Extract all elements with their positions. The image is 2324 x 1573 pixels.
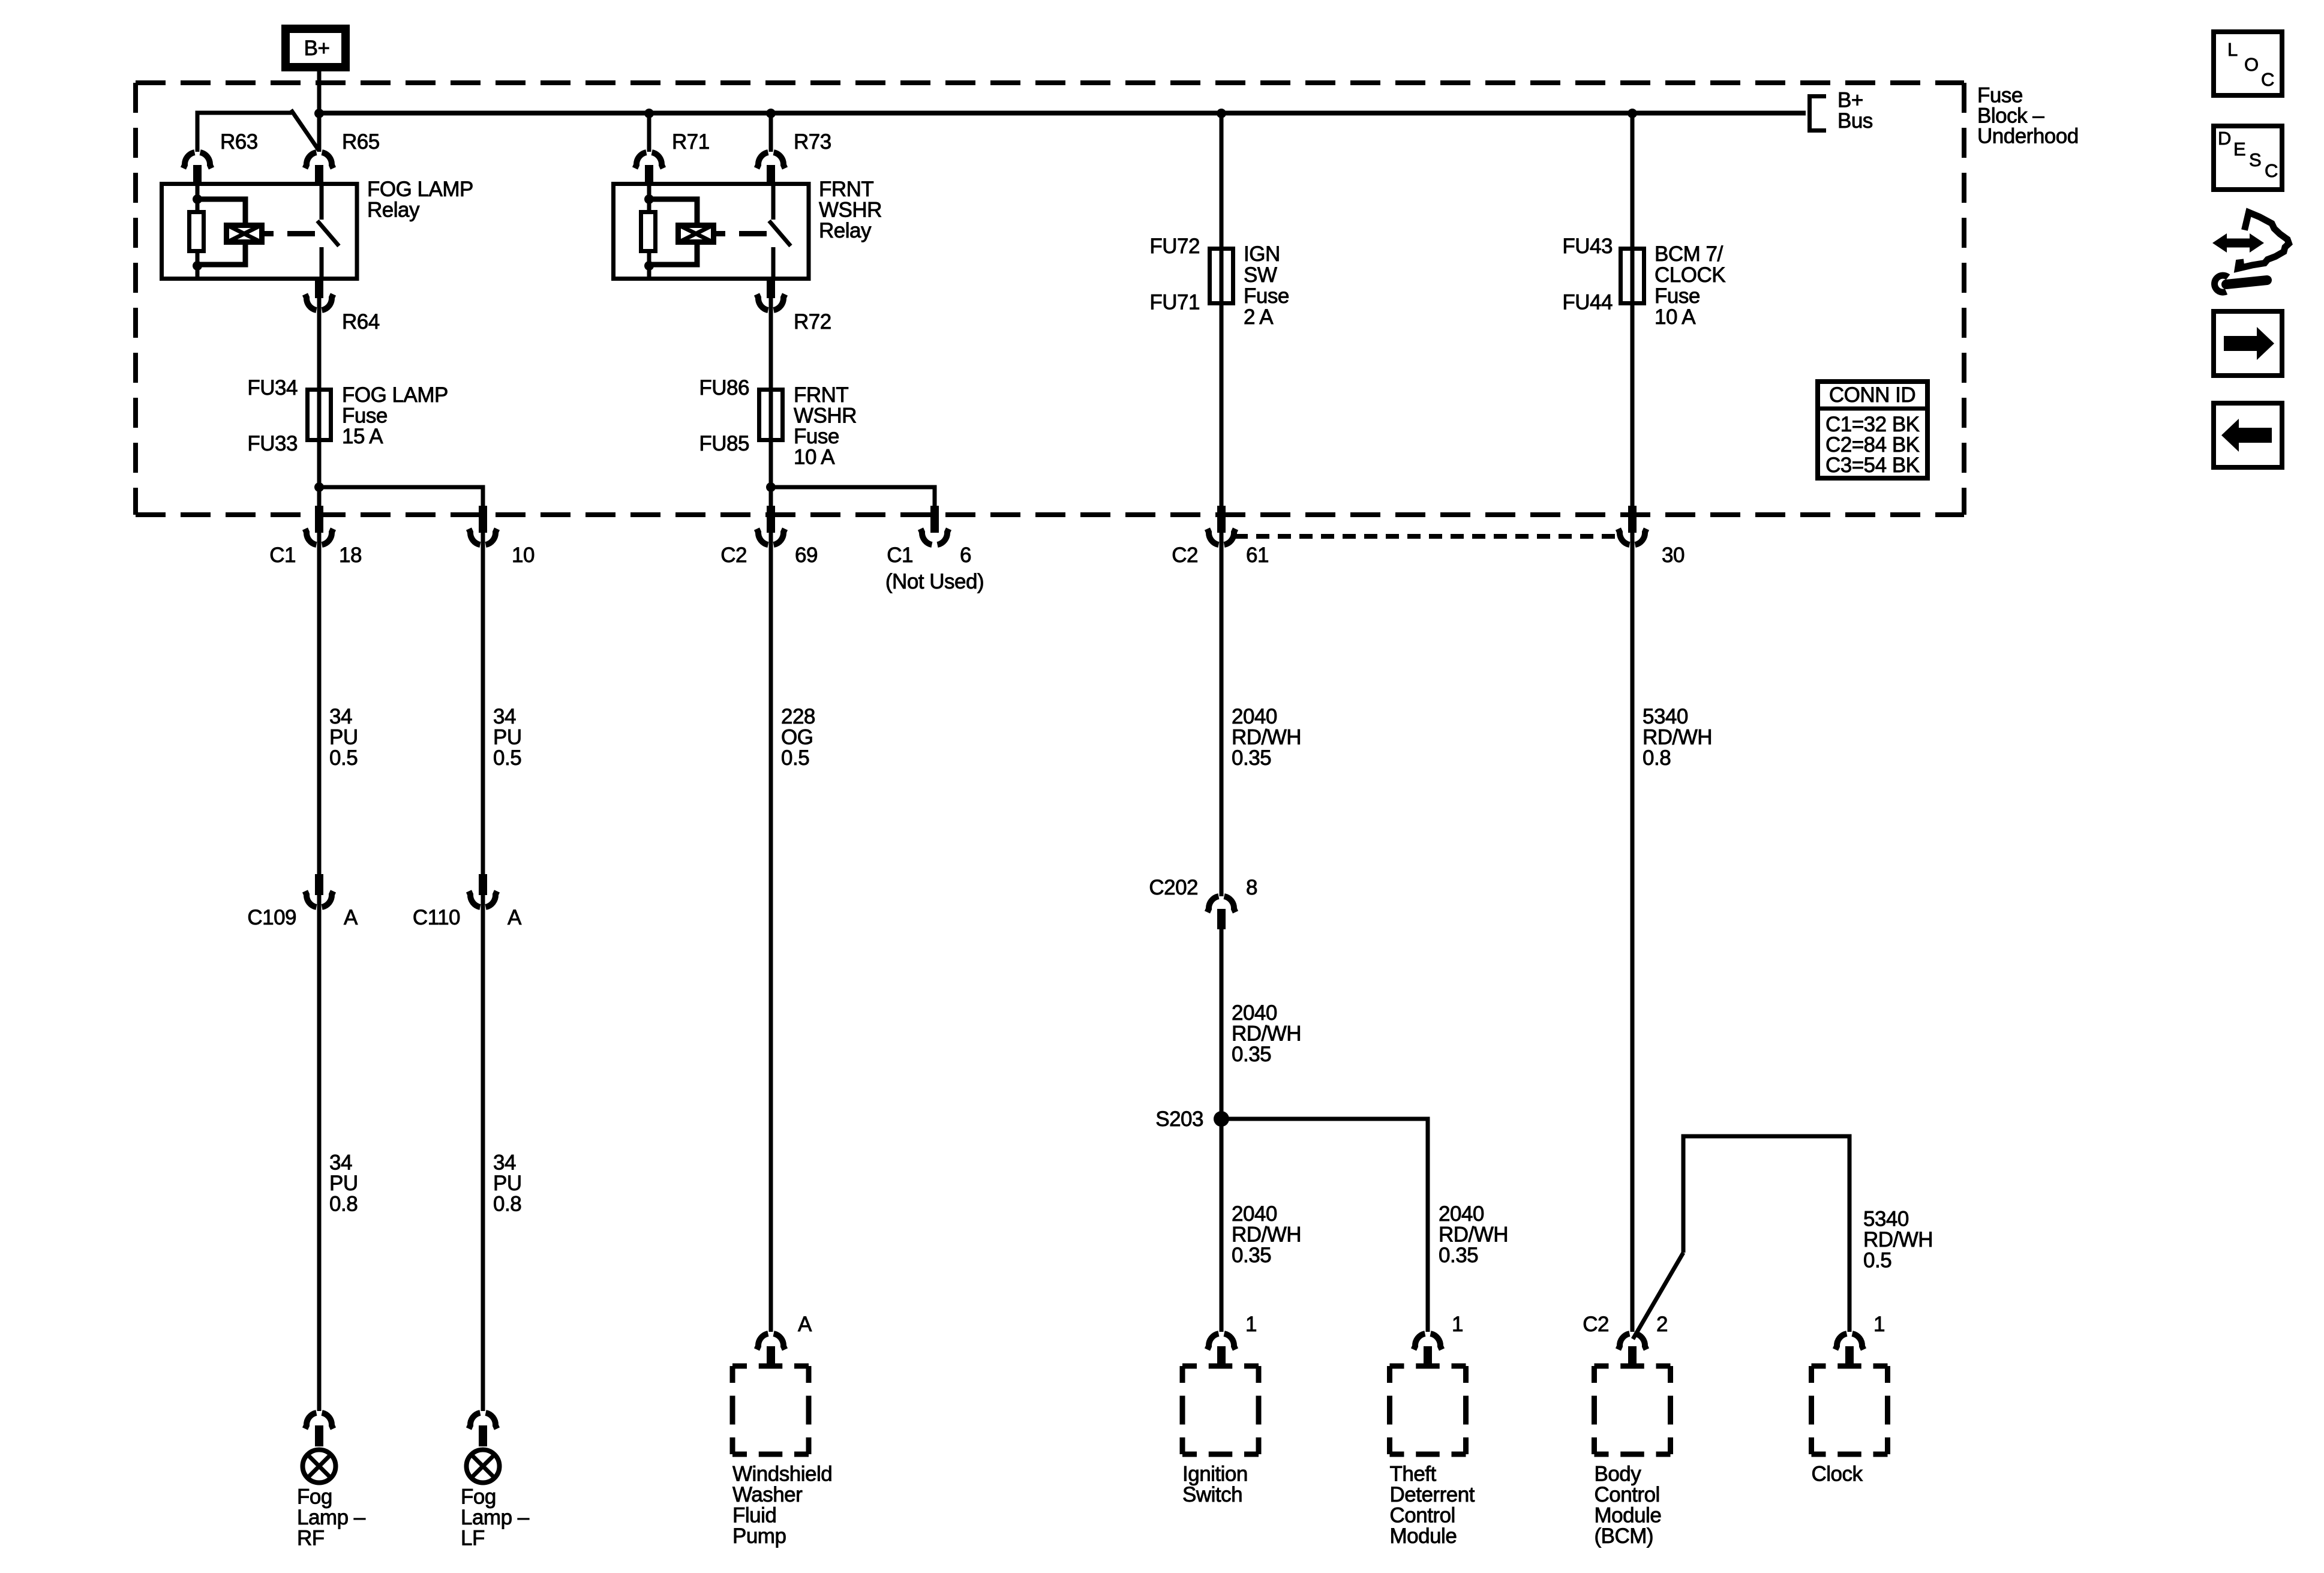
connector C2 pin 69 — [720, 506, 818, 567]
wire 61 to C202 — [1220, 533, 1224, 896]
svg-text:Fog: Fog — [297, 1485, 332, 1509]
svg-text:1: 1 — [1245, 1313, 1257, 1336]
wire R73 drop — [769, 113, 773, 152]
connector ignition switch pin 1 — [1208, 1313, 1257, 1367]
wire S203 branch to theft module — [1221, 1119, 1428, 1332]
svg-text:Underhood: Underhood — [1977, 125, 2079, 148]
svg-text:FU71: FU71 — [1149, 291, 1200, 314]
label wire 34 PU 0.8 LF — [493, 1151, 522, 1216]
relay U1 FOG LAMP Relay box — [162, 184, 358, 279]
svg-text:Module: Module — [1390, 1524, 1457, 1548]
svg-text:C3=54 BK: C3=54 BK — [1825, 454, 1920, 477]
svg-text:CONN ID: CONN ID — [1829, 383, 1915, 407]
svg-text:FU43: FU43 — [1562, 235, 1613, 258]
svg-text:0.35: 0.35 — [1232, 1244, 1271, 1267]
svg-text:PU: PU — [493, 1172, 522, 1195]
svg-text:0.35: 0.35 — [1439, 1244, 1478, 1267]
B+ power symbol — [286, 29, 346, 67]
svg-text:5340: 5340 — [1643, 705, 1688, 728]
svg-text:S203: S203 — [1155, 1107, 1203, 1131]
icon DESC box — [2214, 126, 2282, 190]
connector fog lamp LF — [469, 1413, 497, 1446]
svg-text:R64: R64 — [342, 310, 380, 334]
svg-text:2: 2 — [1656, 1313, 1668, 1336]
svg-text:RD/WH: RD/WH — [1643, 726, 1712, 749]
svg-text:RD/WH: RD/WH — [1232, 1223, 1301, 1247]
box Clock — [1812, 1366, 1888, 1486]
svg-text:RD/WH: RD/WH — [1232, 726, 1301, 749]
icon vehicle double arrow — [2212, 233, 2264, 253]
connector BCM C2 pin 2 — [1583, 1313, 1668, 1367]
label wire 228 OG 0.5 — [781, 705, 815, 770]
connector C2 pin 61 — [1172, 506, 1269, 567]
wire 18 to C109 — [317, 533, 322, 875]
svg-text:Body: Body — [1595, 1463, 1642, 1486]
svg-text:(BCM): (BCM) — [1595, 1524, 1654, 1548]
svg-text:Pump: Pump — [732, 1524, 786, 1548]
lamp Fog Lamp RF — [297, 1450, 366, 1550]
connector pin R65 — [305, 130, 380, 186]
svg-text:Clock: Clock — [1812, 1463, 1863, 1486]
splice S203 — [1155, 1107, 1229, 1131]
svg-text:SW: SW — [1244, 263, 1277, 287]
B+ Bus terminal bracket — [1810, 89, 1873, 133]
svg-text:10: 10 — [512, 544, 535, 567]
wire 10 to C110 — [481, 533, 485, 875]
svg-text:FU44: FU44 — [1562, 291, 1613, 314]
wire R65 drop — [317, 113, 322, 152]
svg-text:RD/WH: RD/WH — [1232, 1022, 1301, 1046]
box Windshield Washer Fluid Pump — [732, 1366, 832, 1548]
node bus/R73 junction — [766, 109, 776, 118]
node bus/BCM junction — [1628, 109, 1637, 118]
node washer fuse branch — [766, 482, 776, 492]
svg-text:C1: C1 — [269, 544, 296, 567]
svg-text:5340: 5340 — [1863, 1208, 1909, 1231]
wire C110 to fog lamp LF — [481, 895, 485, 1411]
svg-text:0.8: 0.8 — [493, 1193, 521, 1216]
node fog fuse branch — [314, 482, 324, 492]
svg-text:0.5: 0.5 — [329, 746, 358, 770]
svg-text:C2: C2 — [1172, 544, 1198, 567]
relay U1 internals — [190, 182, 340, 278]
svg-text:FOG LAMP: FOG LAMP — [342, 383, 448, 407]
svg-text:8: 8 — [1246, 876, 1257, 899]
svg-text:FU85: FU85 — [699, 432, 749, 455]
svg-text:0.8: 0.8 — [1643, 746, 1671, 770]
connector pin R63 — [184, 130, 258, 186]
svg-text:A: A — [798, 1313, 812, 1336]
svg-text:C: C — [2265, 160, 2278, 181]
svg-text:Windshield: Windshield — [732, 1463, 832, 1486]
box Body Control Module — [1595, 1366, 1671, 1548]
label wire 2040 RD/WH 0.35 upper — [1232, 705, 1301, 770]
svg-text:PU: PU — [329, 1172, 358, 1195]
svg-text:0.35: 0.35 — [1232, 746, 1271, 770]
connector C202 pin 8 — [1149, 876, 1257, 929]
label wire 2040 RD/WH 0.35 theft — [1439, 1202, 1508, 1267]
connector pin 10 — [469, 506, 535, 567]
svg-text:C202: C202 — [1149, 876, 1198, 899]
fuse FU72/FU71 IGN SW Fuse 2A — [1149, 235, 1289, 329]
label FRNT WSHR Relay — [819, 178, 882, 242]
icon vehicle outline — [2238, 212, 2289, 269]
svg-text:RF: RF — [297, 1527, 325, 1550]
svg-text:Control: Control — [1595, 1483, 1660, 1506]
svg-text:Washer: Washer — [732, 1483, 803, 1506]
icon wrench — [2215, 275, 2267, 292]
svg-text:Switch: Switch — [1182, 1483, 1242, 1506]
wire C109 to fog lamp RF — [317, 895, 322, 1411]
svg-text:Theft: Theft — [1390, 1463, 1437, 1486]
label wire 2040 RD/WH 0.35 mid — [1232, 1001, 1301, 1066]
svg-text:Relay: Relay — [819, 219, 872, 242]
wire C202 to S203 — [1220, 929, 1224, 1119]
wire branch to R63 — [197, 113, 292, 151]
svg-text:2 A: 2 A — [1244, 305, 1274, 329]
svg-text:FU86: FU86 — [699, 376, 749, 400]
svg-text:61: 61 — [1246, 544, 1269, 567]
svg-text:FU34: FU34 — [247, 376, 298, 400]
wire B+ bus — [319, 111, 1806, 116]
fuse block underhood dashed boundary — [136, 83, 1964, 515]
icon arrow right box — [2214, 311, 2282, 376]
svg-text:FRNT: FRNT — [819, 178, 873, 201]
svg-text:0.5: 0.5 — [781, 746, 809, 770]
svg-text:IGN: IGN — [1244, 242, 1280, 266]
wire hidden link 61 to 30 — [1235, 534, 1620, 539]
wire diagonal feed to R65 — [291, 110, 319, 150]
svg-text:R72: R72 — [794, 310, 831, 334]
svg-text:L: L — [2227, 39, 2238, 60]
svg-text:S: S — [2249, 149, 2262, 170]
relay U2 internals — [641, 182, 791, 278]
fuse FU34/FU33 FOG LAMP Fuse 15A — [247, 376, 448, 455]
lamp Fog Lamp LF — [461, 1450, 530, 1550]
wire 69 to washer pump — [769, 533, 773, 1332]
wire branch to pin 6 — [771, 487, 935, 507]
wire R64 to fuse FU34 — [317, 298, 322, 388]
svg-text:C110: C110 — [413, 906, 460, 929]
wire IGN fuse drop — [1220, 113, 1224, 247]
wire S203 to ignition switch — [1220, 1119, 1224, 1332]
svg-text:C1: C1 — [887, 544, 913, 567]
wire clock branch — [1683, 1136, 1849, 1332]
label FOG LAMP Relay — [367, 178, 473, 222]
wire fuse FU44 to connector — [1631, 305, 1635, 506]
wire R72 to fuse FU86 — [769, 298, 773, 388]
connector pin R71 — [635, 130, 710, 186]
box Ignition Switch — [1182, 1366, 1259, 1506]
svg-text:Lamp –: Lamp – — [461, 1506, 530, 1529]
svg-text:E: E — [2233, 139, 2246, 160]
svg-text:Fuse: Fuse — [1244, 284, 1289, 308]
svg-text:228: 228 — [781, 705, 815, 728]
CONN ID table — [1815, 382, 1930, 478]
wire branch to pin 10 — [319, 487, 483, 507]
svg-text:30: 30 — [1662, 544, 1685, 567]
svg-text:O: O — [2244, 54, 2259, 75]
svg-text:34: 34 — [329, 705, 352, 728]
svg-text:Fluid: Fluid — [732, 1504, 776, 1527]
svg-text:34: 34 — [493, 705, 516, 728]
svg-text:34: 34 — [493, 1151, 516, 1175]
svg-text:B+: B+ — [304, 37, 330, 60]
svg-text:WSHR: WSHR — [819, 199, 882, 222]
svg-text:2040: 2040 — [1232, 705, 1277, 728]
svg-text:FOG LAMP: FOG LAMP — [367, 178, 473, 201]
svg-text:(Not Used): (Not Used) — [885, 570, 984, 593]
wire 30 to BCM — [1631, 533, 1635, 1332]
svg-text:FU72: FU72 — [1149, 235, 1200, 258]
svg-text:Relay: Relay — [367, 199, 420, 222]
wire BCM fuse drop — [1631, 113, 1635, 247]
connector pin R73 — [757, 130, 831, 186]
fuse FU86/FU85 FRNT WSHR Fuse 10A — [699, 376, 857, 469]
label Fuse Block Underhood — [1977, 84, 2079, 148]
svg-text:6: 6 — [960, 544, 971, 567]
label wire 5340 RD/WH 0.8 — [1643, 705, 1712, 770]
svg-text:B+: B+ — [1837, 89, 1863, 112]
wire fuse FU33 to node — [317, 442, 322, 506]
svg-text:LF: LF — [461, 1527, 485, 1550]
svg-text:0.35: 0.35 — [1232, 1043, 1271, 1066]
svg-text:FU33: FU33 — [247, 432, 298, 455]
svg-text:CLOCK: CLOCK — [1655, 263, 1725, 287]
svg-text:A: A — [508, 906, 522, 929]
svg-text:C2: C2 — [1583, 1313, 1609, 1336]
svg-text:69: 69 — [795, 544, 818, 567]
svg-text:0.5: 0.5 — [1863, 1249, 1891, 1272]
svg-text:FRNT: FRNT — [794, 383, 848, 407]
svg-text:34: 34 — [329, 1151, 352, 1175]
svg-text:Control: Control — [1390, 1504, 1455, 1527]
wire fuse FU71 to connector — [1220, 305, 1224, 506]
icon LOC box — [2214, 32, 2282, 95]
connector pin R64 — [305, 277, 380, 334]
connector washer pump pin A — [757, 1313, 813, 1367]
connector C1 pin 6 not used — [885, 506, 984, 593]
node bus/R71 junction — [644, 109, 654, 118]
svg-text:Fog: Fog — [461, 1485, 496, 1509]
svg-text:RD/WH: RD/WH — [1439, 1223, 1508, 1247]
svg-text:D: D — [2218, 128, 2231, 149]
svg-text:2040: 2040 — [1439, 1202, 1484, 1226]
node bus/B+ junction — [314, 109, 324, 118]
svg-text:Module: Module — [1595, 1504, 1662, 1527]
wire clock branch diagonal — [1633, 1253, 1683, 1339]
node bus/IGN junction — [1217, 109, 1226, 118]
svg-text:BCM 7/: BCM 7/ — [1655, 242, 1723, 266]
svg-text:0.8: 0.8 — [329, 1193, 358, 1216]
wire R63 drop — [196, 113, 200, 152]
label wire 34 PU 0.5 RF — [329, 705, 358, 770]
icon arrow left box — [2214, 403, 2282, 467]
connector C109 pin A — [247, 874, 358, 929]
svg-text:Fuse: Fuse — [1655, 284, 1700, 308]
svg-text:1: 1 — [1452, 1313, 1463, 1336]
svg-text:2040: 2040 — [1232, 1202, 1277, 1226]
svg-text:Fuse: Fuse — [794, 425, 839, 448]
relay U2 FRNT WSHR Relay box — [614, 184, 809, 279]
svg-text:OG: OG — [781, 726, 813, 749]
wire fuse FU85 to node — [769, 442, 773, 506]
connector pin R72 — [757, 277, 831, 334]
label wire 5340 RD/WH 0.5 — [1863, 1208, 1933, 1272]
svg-text:C: C — [2261, 69, 2274, 90]
box Theft Deterrent Control Module — [1390, 1366, 1475, 1548]
svg-text:RD/WH: RD/WH — [1863, 1228, 1933, 1251]
svg-text:1: 1 — [1873, 1313, 1885, 1336]
fuse FU43/FU44 BCM7/CLOCK Fuse 10A — [1562, 235, 1725, 329]
svg-text:Deterrent: Deterrent — [1390, 1483, 1475, 1506]
wire R71 drop — [647, 113, 651, 152]
svg-text:R73: R73 — [794, 130, 831, 154]
svg-text:Ignition: Ignition — [1182, 1463, 1248, 1486]
label wire 34 PU 0.8 RF — [329, 1151, 358, 1216]
svg-text:A: A — [344, 906, 358, 929]
svg-text:10 A: 10 A — [1655, 305, 1696, 329]
svg-text:C2: C2 — [720, 544, 747, 567]
svg-text:10 A: 10 A — [794, 446, 835, 469]
svg-text:R63: R63 — [220, 130, 258, 154]
connector C110 pin A — [413, 874, 522, 929]
label wire 2040 RD/WH 0.35 ign — [1232, 1202, 1301, 1267]
connector clock pin 1 — [1836, 1313, 1885, 1367]
svg-text:0.5: 0.5 — [493, 746, 521, 770]
svg-text:Fuse: Fuse — [342, 404, 388, 428]
svg-text:18: 18 — [339, 544, 362, 567]
connector fog lamp RF — [305, 1413, 334, 1446]
svg-text:R65: R65 — [342, 130, 380, 154]
svg-text:WSHR: WSHR — [794, 404, 857, 428]
wire B+ to bus — [317, 71, 322, 113]
svg-text:PU: PU — [493, 726, 522, 749]
connector C1 pin 18 — [269, 506, 362, 567]
connector theft module pin 1 — [1414, 1313, 1463, 1367]
svg-text:Bus: Bus — [1837, 109, 1873, 133]
svg-text:Lamp –: Lamp – — [297, 1506, 366, 1529]
svg-text:PU: PU — [329, 726, 358, 749]
connector pin 30 — [1619, 506, 1685, 567]
svg-text:2040: 2040 — [1232, 1001, 1277, 1025]
svg-text:C109: C109 — [247, 906, 296, 929]
svg-text:R71: R71 — [672, 130, 710, 154]
label wire 34 PU 0.5 LF — [493, 705, 522, 770]
svg-text:15 A: 15 A — [342, 425, 383, 448]
